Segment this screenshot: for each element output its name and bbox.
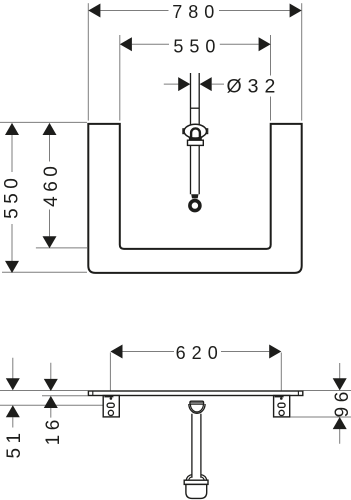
svg-text:96: 96 (332, 387, 351, 417)
svg-text:780: 780 (172, 2, 220, 22)
svg-text:16: 16 (43, 415, 64, 445)
svg-text:550: 550 (2, 174, 23, 219)
svg-text:620: 620 (176, 343, 224, 363)
svg-text:460: 460 (41, 162, 62, 207)
svg-text:Ø32: Ø32 (227, 76, 282, 98)
svg-text:51: 51 (4, 428, 25, 458)
svg-text:550: 550 (173, 36, 221, 56)
